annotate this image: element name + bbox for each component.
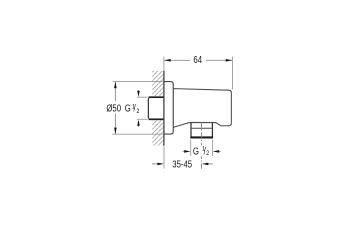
extension line left (wall surface plane) — [163, 57, 165, 71]
extension line bottom — [137, 118, 148, 120]
extension line right (body end) — [231, 57, 233, 90]
svg-text:G: G — [193, 146, 199, 157]
shower hose outlet cylinder — [190, 123, 213, 138]
extension line left — [190, 140, 192, 156]
dimension G1/2 (inlet thread, arrows outside) — [137, 90, 148, 127]
right arrow pointing left — [208, 163, 213, 165]
dimension 35-45 (wall to outlet axis, arrows outside) — [152, 146, 213, 169]
left arrow pointing right — [152, 163, 158, 165]
wall hatching upper band — [152, 71, 163, 96]
label O50 G1/2 (flange and inlet thread) — [106, 103, 140, 116]
dimension 64 (top) — [164, 54, 233, 89]
extension line top — [137, 96, 148, 98]
upper leader with down arrow — [138, 90, 140, 92]
dimension G1/2 (outlet thread, below outlet) — [183, 140, 221, 158]
extension line right — [212, 140, 214, 156]
wall flange (escutcheon) — [164, 82, 173, 135]
right arrow pointing left — [219, 150, 221, 152]
svg-text:35-45: 35-45 — [172, 159, 192, 170]
svg-text:Ø50: Ø50 — [106, 103, 121, 114]
lower leader with up arrow — [138, 125, 140, 127]
body of wall union (tapered housing) — [173, 89, 231, 128]
wall surface line — [163, 71, 165, 146]
arrowhead left — [164, 59, 170, 62]
threaded inlet stub G1/2 (behind wall) — [148, 96, 164, 120]
outlet centerline (dash-dot) — [201, 122, 203, 169]
arrowhead up — [114, 82, 117, 88]
dimension text 35-45 — [172, 159, 192, 170]
wall hatching lower band — [152, 120, 163, 145]
dimension O50 (flange diameter, left) — [112, 82, 163, 135]
dimension line (interrupted by label) — [114, 82, 116, 101]
arrowhead down — [114, 128, 117, 134]
arrowhead right — [226, 59, 232, 62]
dimension line — [164, 59, 190, 61]
svg-text:64: 64 — [193, 54, 202, 65]
dimension text 64 — [193, 54, 202, 65]
label G1/2 — [193, 146, 210, 158]
erase the implicit left closing edge of body path — [173, 89, 174, 126]
white backing for label over centerline — [192, 145, 210, 156]
extension line top — [113, 81, 163, 83]
extension line bottom — [112, 133, 163, 135]
left arrow pointing right — [183, 150, 185, 152]
extension line from wall surface — [163, 146, 165, 168]
svg-text:G: G — [125, 103, 131, 114]
